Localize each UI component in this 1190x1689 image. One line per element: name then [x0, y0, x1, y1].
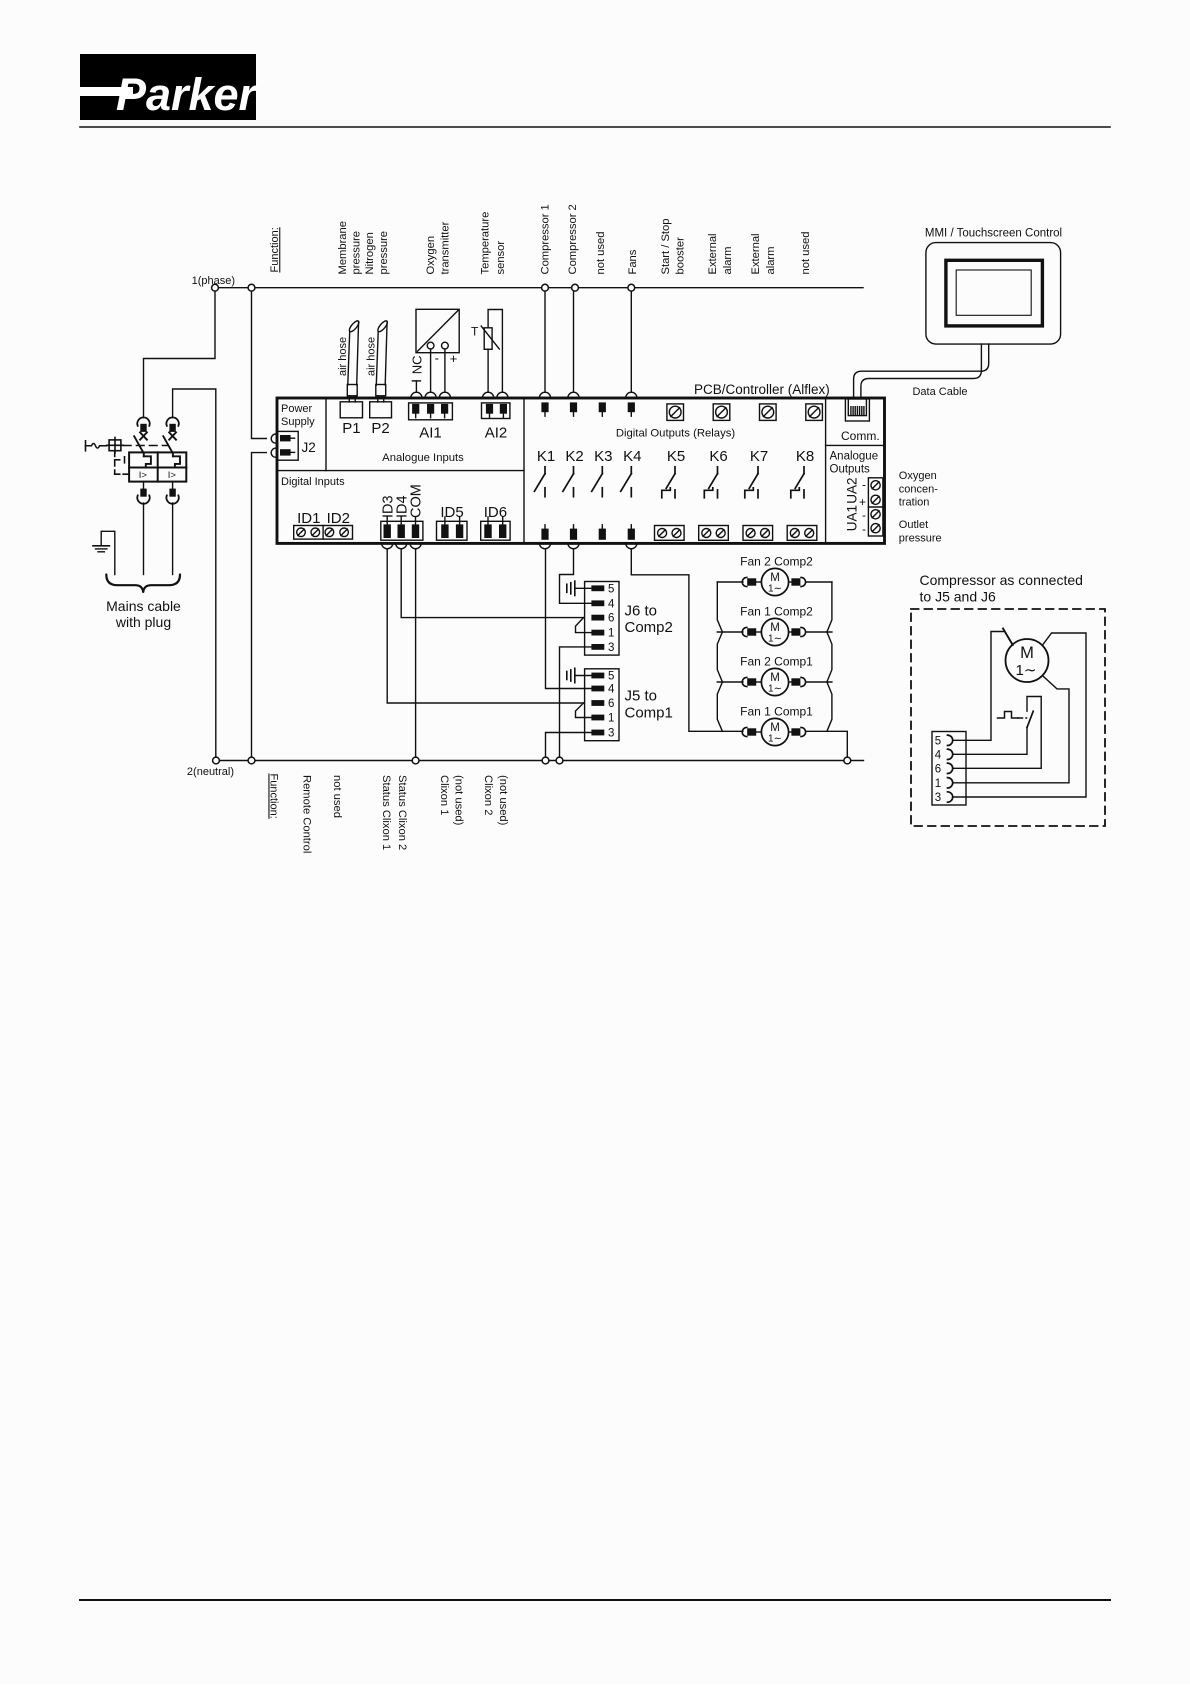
UA polarity labels [859, 477, 866, 536]
screw block K8 bottom [787, 526, 817, 541]
svg-text:Outputs: Outputs [830, 463, 871, 475]
junction phase A [212, 284, 219, 291]
wire COM to neutral [415, 549, 417, 757]
fan motor Fan 2 Comp2 [742, 568, 805, 595]
svg-text:ID6: ID6 [484, 504, 507, 521]
svg-text:4: 4 [935, 749, 942, 761]
relay contact K3 [592, 467, 603, 497]
fan left bus [717, 582, 722, 731]
svg-text:1: 1 [608, 628, 614, 640]
relay changeover contact K6 [704, 467, 717, 498]
svg-text:4: 4 [608, 598, 615, 610]
pin J6-3 [591, 642, 614, 654]
wire fan row 2 left [717, 631, 743, 633]
svg-text:UA1: UA1 [844, 505, 859, 531]
svg-text:K8: K8 [796, 448, 814, 465]
svg-text:alarm: alarm [722, 247, 734, 275]
svg-text:Clixon 2: Clixon 2 [482, 775, 494, 815]
fan motor Fan 1 Comp2 [742, 618, 805, 645]
junction neutral A [213, 757, 220, 764]
screw K6 bottom b [716, 529, 725, 538]
screw K7 bottom a [746, 529, 755, 538]
compressor motor M1 [1006, 639, 1049, 682]
connector J2 [277, 431, 298, 460]
svg-text:Nitrogen: Nitrogen [364, 232, 376, 274]
wire fan row 1 left [717, 581, 743, 583]
junction neutral fans [844, 757, 851, 764]
svg-text:(not used): (not used) [497, 775, 509, 826]
pin J5-4 [591, 684, 615, 696]
wire phase to K1 [544, 291, 546, 392]
terminal arc AI1 NC [411, 392, 422, 398]
svg-text:Clixon 1: Clixon 1 [438, 775, 450, 815]
svg-text:-: - [862, 508, 866, 522]
terminal arc COM [410, 543, 421, 549]
svg-text:AI1: AI1 [419, 425, 442, 442]
thermal contact blade [1003, 629, 1013, 645]
svg-text:Fans: Fans [627, 249, 639, 274]
svg-text:Power: Power [281, 403, 313, 415]
wire fan row 1 right [807, 581, 832, 583]
screw K6 top [716, 406, 728, 418]
svg-text:P1: P1 [342, 420, 360, 437]
screw ID1-b [311, 528, 320, 537]
MMI touchscreen housing [926, 243, 1061, 345]
screw terminal K8 top [806, 404, 823, 421]
screw K8 bottom a [790, 529, 799, 538]
pressure switch blade [1027, 711, 1033, 727]
pin J5-6 [591, 698, 614, 710]
svg-text:1: 1 [935, 778, 941, 790]
socket arc J2 pin1 [271, 434, 276, 443]
wire breaker pole N to neutral [173, 389, 216, 757]
svg-text:2(neutral): 2(neutral) [187, 766, 234, 778]
svg-text:M: M [770, 572, 780, 584]
screw K7 top [762, 406, 774, 418]
wire breaker pole N down to mains plug [172, 482, 174, 489]
screw K5 bottom b [672, 529, 681, 538]
pin K2 bottom [570, 525, 577, 540]
mains cable brace [106, 575, 180, 592]
svg-text:K7: K7 [750, 448, 768, 465]
connector ID6 block [481, 521, 510, 540]
svg-text:M: M [770, 672, 780, 684]
screw ID1-a [297, 528, 306, 537]
relay changeover contact K8 [791, 467, 804, 498]
pin AI1-1 [412, 404, 419, 418]
wire neutral to J2 pin2 [252, 453, 267, 757]
svg-text:External: External [707, 233, 719, 274]
junction phase B [248, 284, 255, 291]
svg-text:6: 6 [608, 613, 614, 625]
pin K3 bottom [599, 525, 606, 540]
wire phase to K4 [630, 291, 632, 392]
screw ID2-b [340, 528, 349, 537]
compressor connector [932, 732, 966, 806]
wire fan row 3 right [807, 681, 832, 683]
pin J5-5 [591, 671, 614, 683]
junction phase K1 [542, 284, 549, 291]
screw K8 top [808, 406, 820, 418]
svg-text:5: 5 [608, 583, 614, 595]
shield symbol J6 pin5 [567, 581, 592, 595]
svg-text:Oxygen: Oxygen [425, 236, 437, 275]
wire fan return to neutral [807, 731, 848, 757]
breaker bottom connector pole L [137, 489, 149, 504]
junction phase K4 [628, 284, 635, 291]
svg-text:K1: K1 [537, 448, 555, 465]
svg-text:Comm.: Comm. [841, 429, 880, 443]
pin K2 top [570, 402, 577, 416]
svg-text:booster: booster [674, 237, 686, 275]
screw block K7 bottom [743, 526, 773, 541]
junction neutral J5 [542, 757, 549, 764]
footer rule [80, 1599, 1110, 1601]
svg-text:Comp1: Comp1 [625, 704, 673, 721]
screw UA1 minus [871, 510, 880, 519]
svg-text:T: T [471, 325, 479, 339]
breaker trip linkage dashed [115, 451, 129, 474]
svg-text:not used: not used [331, 775, 343, 818]
pin COM [412, 517, 419, 538]
svg-text:M: M [1020, 644, 1034, 662]
svg-text:COM: COM [409, 484, 425, 518]
pin ID4 [398, 517, 405, 538]
svg-text:Parker: Parker [116, 69, 259, 120]
svg-text:Fan 2 Comp1: Fan 2 Comp1 [740, 655, 813, 669]
pin AI1-3 [441, 404, 448, 418]
jumper J5 pin6 to pin1 [576, 703, 592, 718]
connector AI2 block [482, 403, 510, 419]
relay contact K1 [534, 467, 545, 497]
svg-text:+: + [450, 351, 458, 366]
pin J6-6 [591, 613, 614, 625]
wire ID3 to J5 pin6 [387, 549, 583, 703]
svg-text:Start / Stop: Start / Stop [660, 219, 672, 275]
connector ID5 block [437, 521, 468, 540]
svg-text:1∼: 1∼ [1016, 662, 1037, 679]
relay changeover contact K7 [745, 467, 758, 498]
screw ID2-a [325, 528, 334, 537]
screw UA2 minus [871, 481, 880, 490]
analogue outputs screw block [868, 478, 883, 536]
svg-text:Function:: Function: [269, 227, 281, 272]
PCB section dividers [277, 398, 885, 543]
svg-text:M: M [770, 722, 780, 734]
svg-text:Digital Outputs (Relays): Digital Outputs (Relays) [616, 428, 736, 440]
svg-text:6: 6 [935, 763, 941, 775]
wire ID4 to J6 pin6 [401, 549, 583, 618]
wire K2 to J6 pin4 [560, 549, 592, 604]
svg-text:4: 4 [608, 684, 615, 696]
svg-text:Outlet: Outlet [899, 519, 928, 531]
svg-text:-: - [435, 351, 439, 366]
breaker overload element pole L [144, 456, 151, 467]
junction phase K2 [572, 284, 579, 291]
svg-text:J2: J2 [302, 440, 316, 455]
pin K3 top [599, 402, 606, 416]
svg-text:AI2: AI2 [485, 425, 508, 442]
breaker bottom connector pole N [166, 489, 178, 504]
svg-text:K6: K6 [709, 448, 727, 465]
svg-text:1∼: 1∼ [768, 684, 782, 695]
wire breaker pole L down to mains plug [143, 482, 145, 489]
svg-text:Supply: Supply [281, 416, 315, 428]
svg-text:K3: K3 [594, 448, 612, 465]
svg-text:ID2: ID2 [327, 510, 350, 527]
jumper J6 pin6 to pin1 [576, 618, 592, 633]
svg-text:air hose: air hose [337, 337, 349, 376]
screw K8 bottom b [805, 529, 814, 538]
wire phase rail [215, 287, 863, 289]
terminal arc AI2 left [483, 392, 494, 398]
svg-text:Oxygen: Oxygen [899, 470, 937, 482]
svg-text:pressure: pressure [351, 231, 363, 275]
screw K5 bottom a [658, 529, 667, 538]
svg-text:Analogue Inputs: Analogue Inputs [382, 452, 464, 464]
svg-text:Temperature: Temperature [480, 212, 492, 275]
svg-text:I>: I> [139, 470, 148, 481]
air hose P2 [376, 319, 389, 402]
terminal arc K2 bottom [568, 543, 579, 549]
terminal arc AI2 right [497, 392, 508, 398]
terminal arc ID3 [382, 543, 393, 549]
svg-text:NC: NC [409, 356, 424, 375]
svg-text:ID1: ID1 [297, 510, 320, 527]
connector J6 [585, 582, 619, 656]
svg-text:Status Clixon 1: Status Clixon 1 [380, 775, 392, 850]
svg-text:not used: not used [595, 232, 607, 275]
pin K4 top [628, 402, 635, 416]
svg-text:1: 1 [608, 713, 614, 725]
breaker top connector pole N [166, 417, 178, 439]
junction neutral COM [412, 757, 419, 764]
pin ID6-b [499, 517, 506, 538]
svg-text:pressure: pressure [899, 532, 942, 544]
connector J5 [585, 669, 619, 741]
svg-text:I>: I> [168, 470, 177, 481]
wire comp pin5 to motor via thermal contact [953, 632, 1004, 741]
pin ID6-a [484, 517, 491, 538]
svg-text:with plug: with plug [115, 614, 171, 630]
fan motor Fan 2 Comp1 [742, 668, 805, 695]
comm connector RJ [845, 399, 869, 421]
svg-text:Fan 1 Comp2: Fan 1 Comp2 [740, 605, 813, 619]
pin K1 bottom [541, 525, 548, 540]
screw K7 bottom b [761, 529, 770, 538]
wire phase to J2 pin1 [252, 291, 267, 438]
wire phase to K2 [573, 291, 575, 392]
svg-text:K4: K4 [623, 448, 641, 465]
oxygen transmitter [416, 309, 459, 352]
svg-text:sensor: sensor [495, 241, 507, 275]
svg-text:+: + [859, 495, 866, 509]
svg-text:ID5: ID5 [440, 504, 463, 521]
svg-text:K2: K2 [565, 448, 583, 465]
screw terminal K5 top [667, 404, 684, 421]
wire phase to breaker pole L [144, 291, 216, 417]
pin K4 bottom [628, 525, 635, 540]
pin K1 top [541, 402, 548, 416]
svg-text:-: - [862, 477, 866, 491]
svg-text:Remote Control: Remote Control [301, 775, 313, 853]
svg-text:(not used): (not used) [453, 775, 465, 826]
svg-text:Data Cable: Data Cable [912, 386, 967, 398]
svg-text:3: 3 [608, 642, 614, 654]
breaker manual actuator [107, 438, 124, 454]
Oxygen concentration label [899, 470, 938, 509]
wire comp pin4 to pressure switch [953, 728, 1027, 755]
socket arc J2 pin2 [271, 448, 276, 457]
svg-text:tration: tration [899, 497, 930, 509]
svg-text:Analogue: Analogue [830, 451, 879, 463]
svg-text:M: M [770, 622, 780, 634]
terminal arc AI1 minus [425, 392, 436, 398]
compressor dashed box [911, 609, 1105, 826]
svg-text:5: 5 [935, 735, 941, 747]
svg-text:Mains cable: Mains cable [106, 598, 181, 614]
ground (protective earth) [93, 531, 115, 574]
Parker logo [80, 54, 259, 120]
fan motor Fan 1 Comp1 [742, 718, 805, 745]
svg-text:K5: K5 [667, 448, 685, 465]
wire comp pin3 to motor [953, 633, 1086, 797]
svg-text:Status Clixon 2: Status Clixon 2 [396, 775, 408, 850]
junction neutral B [248, 757, 255, 764]
svg-text:3: 3 [935, 792, 941, 804]
relay changeover contact K5 [662, 467, 675, 498]
svg-text:MMI / Touchscreen Control: MMI / Touchscreen Control [925, 228, 1062, 240]
svg-text:UA2: UA2 [844, 478, 859, 504]
relay contact K2 [563, 467, 574, 497]
air hose P1 [347, 319, 360, 402]
svg-text:6: 6 [608, 698, 614, 710]
wire neutral rail [216, 760, 864, 762]
pin J6-5 [591, 583, 614, 595]
svg-text:J5 to: J5 to [625, 688, 658, 705]
svg-text:Fan 1 Comp1: Fan 1 Comp1 [740, 705, 813, 719]
svg-text:Compressor as connected: Compressor as connected [920, 572, 1083, 588]
screw K5 top [669, 406, 681, 418]
pin AI1-2 [427, 404, 434, 418]
compressor connector pin 5 [935, 735, 953, 747]
NC stub [412, 381, 420, 392]
pin ID5-a [441, 517, 448, 538]
Outlet pressure label [899, 519, 942, 544]
svg-text:PCB/Controller (Alflex): PCB/Controller (Alflex) [694, 382, 830, 397]
fan right bus [827, 582, 832, 731]
compressor connector pin 3 [935, 792, 953, 804]
svg-text:J6 to: J6 to [625, 603, 658, 620]
wire oxygen transmitter minus [430, 349, 432, 392]
svg-text:Compressor 2: Compressor 2 [567, 204, 579, 274]
terminal arc K1 top [539, 392, 550, 398]
wire comp pin1 to motor [953, 676, 1069, 783]
svg-text:External: External [750, 233, 762, 274]
svg-text:to J5 and J6: to J5 and J6 [920, 589, 996, 605]
terminal arc K4 bottom [626, 543, 637, 549]
pin AI2-1 [486, 404, 493, 418]
wire J5 pin3 to neutral [546, 733, 592, 758]
wire fan row 3 left [717, 681, 743, 683]
shield symbol J5 pin5 [567, 668, 592, 682]
svg-text:not used: not used [800, 232, 812, 275]
wire J6 pin3 to neutral [560, 647, 592, 757]
terminal arc K1 bottom [539, 543, 550, 549]
svg-text:air hose: air hose [366, 337, 378, 376]
pin ID5-b [456, 517, 463, 538]
svg-text:5: 5 [608, 671, 614, 683]
svg-text:3: 3 [608, 728, 614, 740]
terminal arc AI1 plus [439, 392, 450, 398]
svg-text:alarm: alarm [765, 247, 777, 275]
pin AI2-2 [500, 404, 507, 418]
pin J6-1 [591, 628, 614, 640]
compressor connector pin 6 [935, 763, 953, 775]
relay contact K4 [621, 467, 632, 497]
pressure switch actuator symbol [998, 712, 1027, 719]
breaker housing [129, 452, 186, 481]
PCB/Controller main box [277, 398, 885, 543]
breaker actuator lead with squiggle [86, 441, 109, 451]
P1 port box [340, 402, 362, 418]
svg-text:concen-: concen- [899, 483, 938, 495]
pin J6-4 [591, 598, 615, 610]
screw terminal K7 top [760, 404, 777, 421]
connector ID3/ID4/COM block [381, 521, 423, 540]
svg-text:Digital Inputs: Digital Inputs [281, 476, 345, 488]
breaker switch blade pole L [134, 436, 144, 456]
data cable [854, 344, 989, 398]
connector AI1 block [409, 403, 453, 420]
pressure switch contact and pin6 wire [953, 697, 1041, 769]
wire fan row 2 right [807, 631, 832, 633]
P2 port box [370, 402, 392, 418]
breaker top connector pole L [137, 417, 149, 439]
pin J5-1 [591, 713, 614, 725]
svg-text:Fan 2 Comp2: Fan 2 Comp2 [740, 555, 813, 569]
svg-text:transmitter: transmitter [439, 221, 451, 274]
breaker overload element pole N [173, 456, 180, 467]
breaker linkage dashed line [124, 445, 169, 447]
connector ID1 ID2 screw block [294, 526, 353, 540]
screw block K6 bottom [699, 526, 729, 541]
svg-text:1∼: 1∼ [768, 634, 782, 645]
svg-text:Comp2: Comp2 [625, 619, 673, 636]
header rule [80, 126, 1110, 128]
wire K4 to fan bus [631, 549, 743, 732]
wire oxygen transmitter plus [444, 349, 446, 392]
temperature sensor T [481, 310, 502, 393]
svg-text:1∼: 1∼ [768, 584, 782, 595]
svg-text:Membrane: Membrane [337, 221, 349, 274]
screw terminal K6 top [713, 404, 730, 421]
breaker switch blade pole N [163, 436, 173, 456]
screw block K5 bottom [655, 526, 685, 541]
svg-text:Function:: Function: [268, 774, 280, 819]
svg-text:P2: P2 [371, 420, 389, 437]
terminal arc ID4 [396, 543, 407, 549]
screw K6 bottom a [702, 529, 711, 538]
pin ID3 [384, 517, 391, 538]
wire K1 to J5 pin4 [546, 549, 592, 689]
junction neutral J6 [556, 757, 563, 764]
screw UA2 plus [871, 495, 880, 504]
terminal arc K2 top [568, 392, 579, 398]
compressor connector pin 4 [935, 749, 953, 761]
terminal arc K4 top [626, 392, 637, 398]
svg-text:Compressor 1: Compressor 1 [540, 204, 552, 274]
